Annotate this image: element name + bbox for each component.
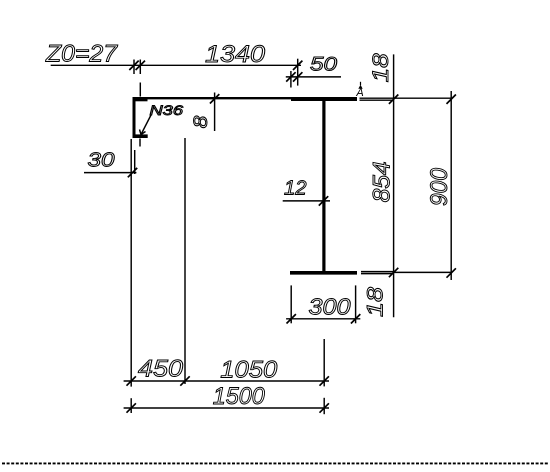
svg-text:N36: N36 (150, 102, 184, 118)
svg-text:12: 12 (284, 178, 307, 200)
svg-text:854: 854 (369, 161, 396, 202)
svg-text:300: 300 (309, 293, 351, 319)
svg-text:1340: 1340 (205, 41, 266, 68)
svg-text:30: 30 (88, 149, 115, 171)
svg-text:A: A (355, 87, 363, 99)
svg-text:18: 18 (368, 53, 393, 83)
svg-text:1050: 1050 (220, 356, 277, 383)
svg-text:1500: 1500 (213, 383, 265, 410)
svg-text:900: 900 (426, 167, 453, 206)
svg-text:450: 450 (138, 356, 183, 383)
svg-text:18: 18 (363, 286, 388, 317)
svg-text:50: 50 (310, 54, 337, 76)
svg-text:8: 8 (191, 115, 212, 128)
svg-text:Z0=27: Z0=27 (45, 41, 119, 68)
